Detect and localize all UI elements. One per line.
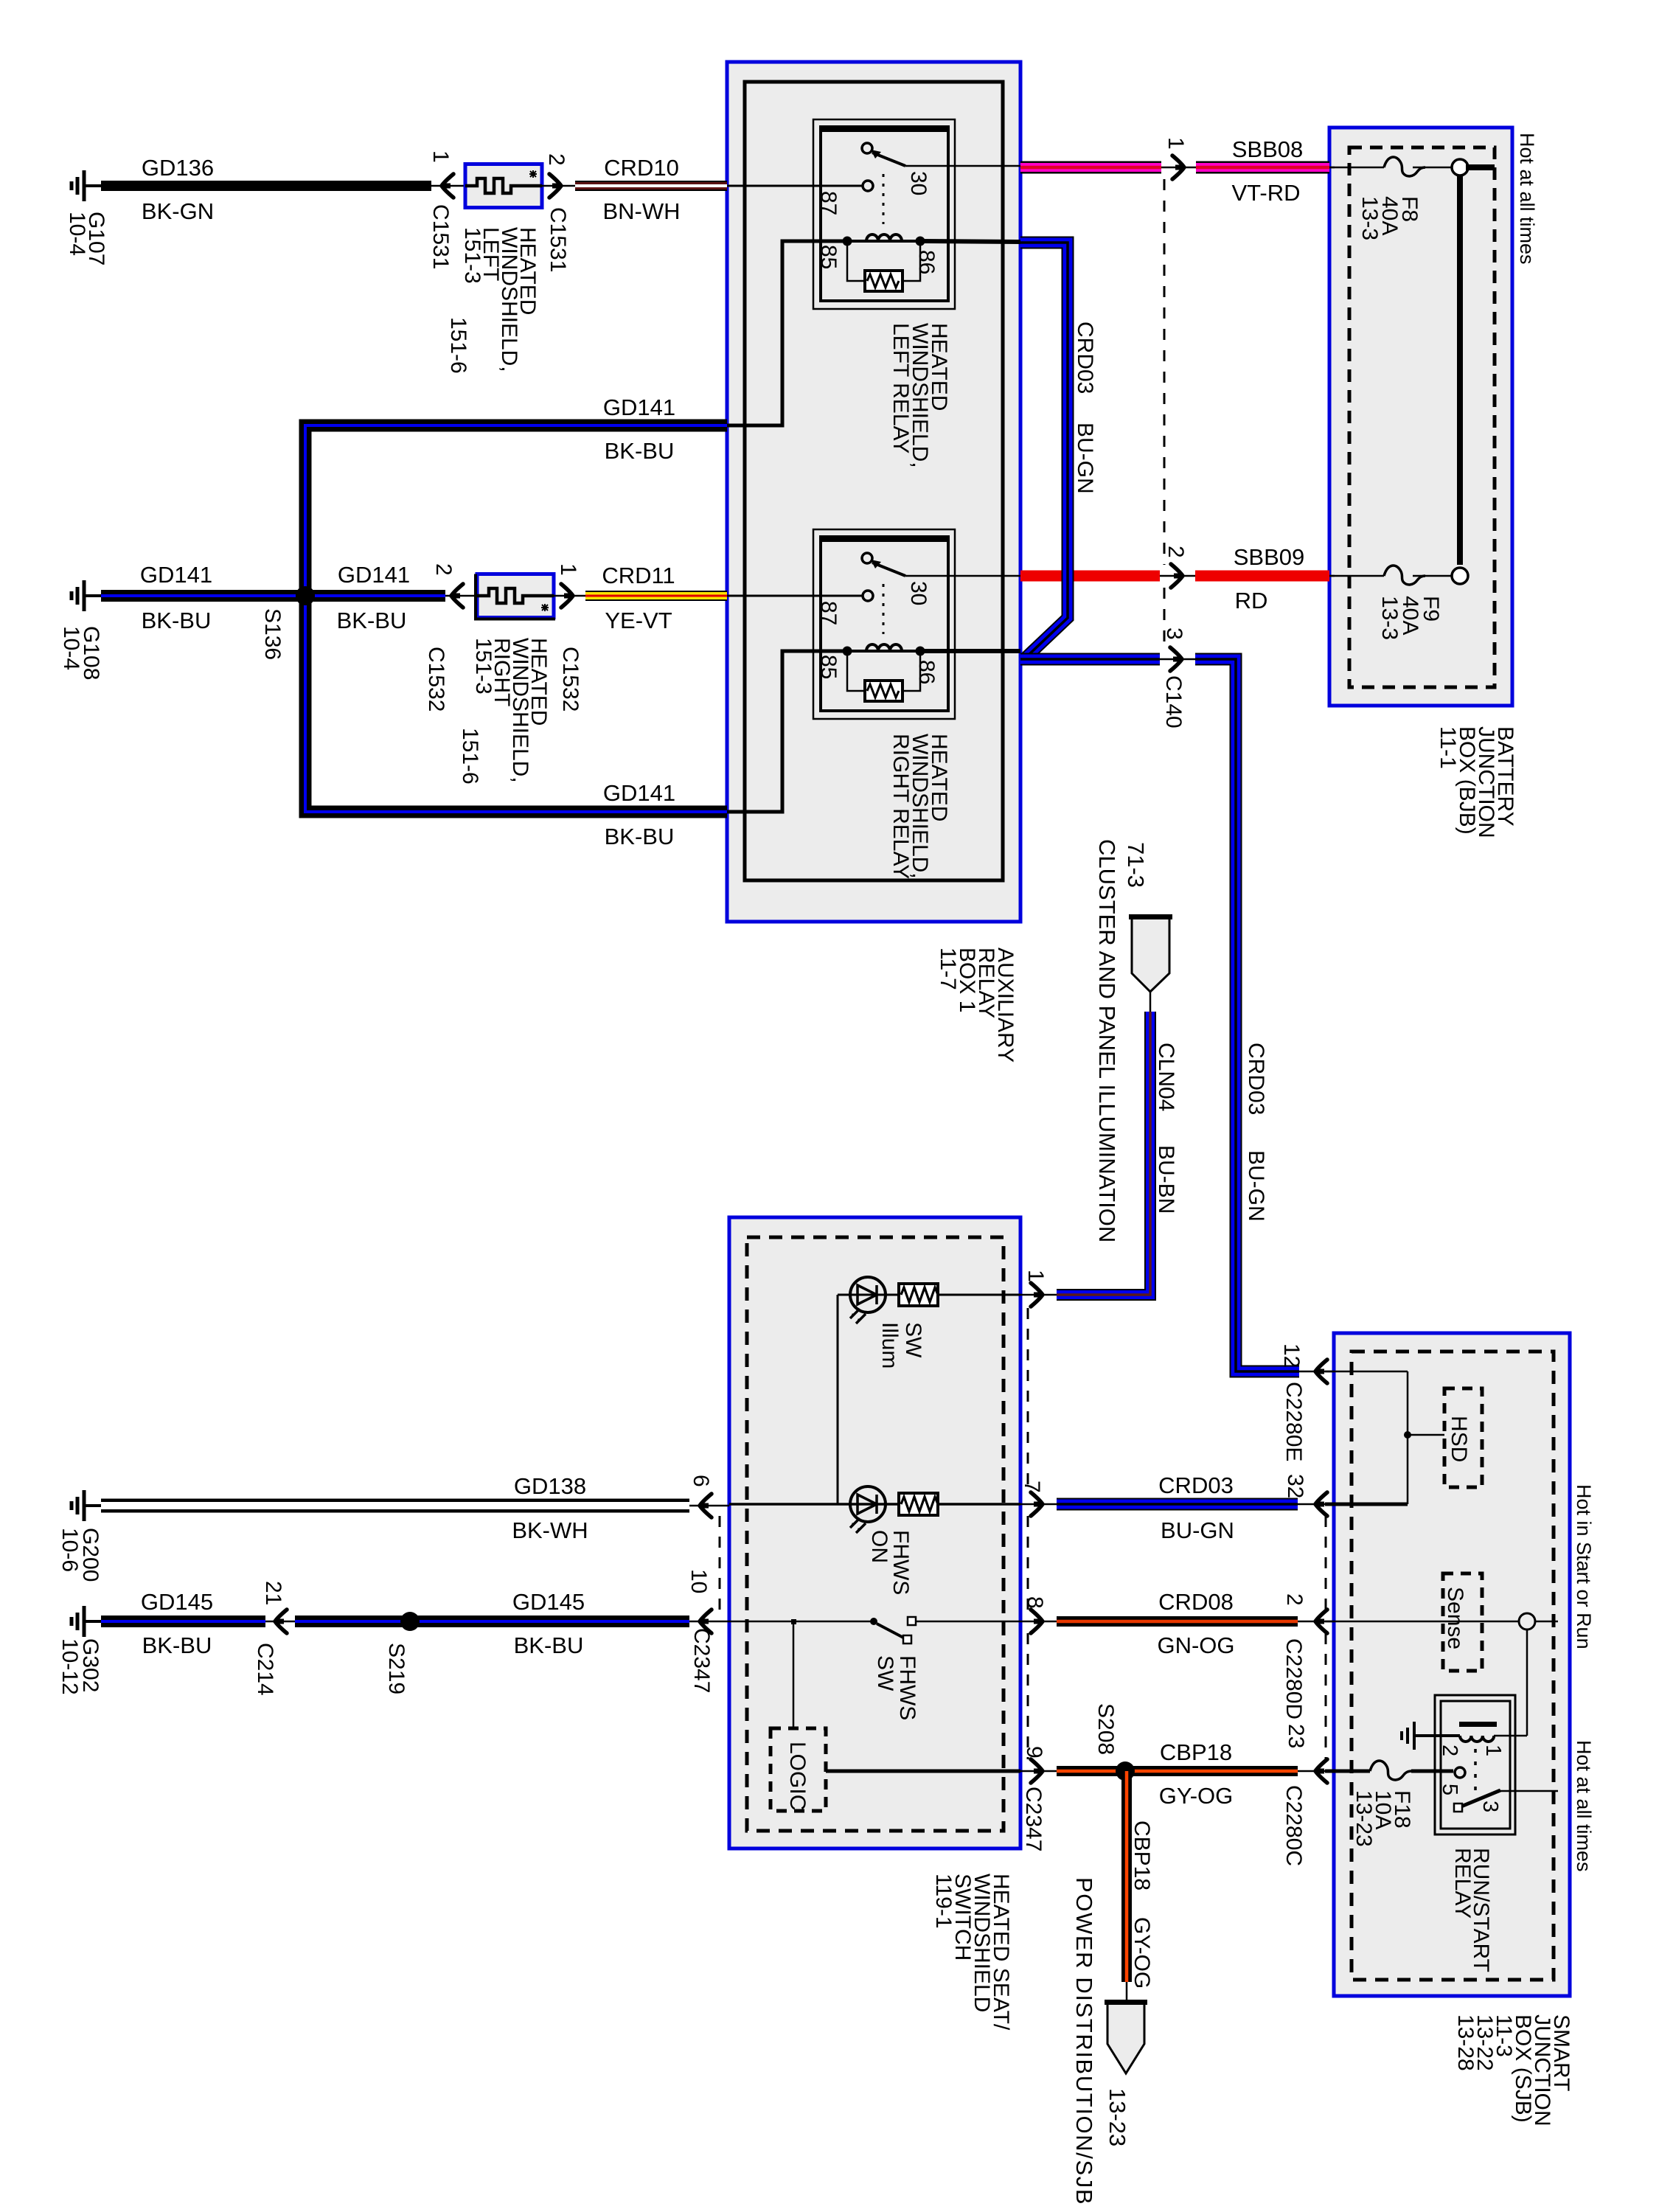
wire GD145 BK-BU (right) — [295, 1615, 689, 1627]
wire CRD03 BU-GN (C140 down to SJB) — [1195, 659, 1299, 1371]
svg-text:151-6: 151-6 — [458, 728, 482, 785]
svg-text:BK-BU: BK-BU — [605, 438, 675, 464]
off-page connector: CLUSTER AND PANEL ILLUMINATION 71-3 — [1132, 917, 1169, 992]
SJB pin 12 wire to HSD node — [1325, 1371, 1408, 1373]
svg-text:GD141: GD141 — [603, 394, 675, 420]
svg-text:2: 2 — [431, 563, 456, 576]
svg-text:GD145: GD145 — [512, 1589, 585, 1615]
svg-text:71-3: 71-3 — [1123, 842, 1149, 888]
svg-text:GD138: GD138 — [514, 1473, 586, 1499]
svg-text:2: 2 — [1164, 546, 1188, 558]
svg-text:BN-WH: BN-WH — [602, 198, 680, 224]
svg-text:CRD11: CRD11 — [602, 563, 675, 588]
RUN/START RELAY — [1435, 1695, 1515, 1834]
harness dashed lines at switch box — [1027, 1308, 1029, 1492]
wire CLN04 BU-BN — [1057, 1012, 1150, 1295]
wire CRD03 BU-GN (to C140) — [1020, 653, 1160, 666]
relay K1: HEATED WINDSHIELD, LEFT RELAY — [813, 119, 955, 309]
svg-text:S208: S208 — [1093, 1703, 1118, 1755]
svg-text:GN-OG: GN-OG — [1157, 1632, 1234, 1658]
switch box pin 1 arrow — [1031, 1283, 1043, 1307]
switch box pin 6 arrow — [689, 1505, 729, 1507]
svg-text:C214: C214 — [253, 1643, 277, 1696]
svg-text:C140: C140 — [1161, 675, 1186, 728]
svg-text:BU-GN: BU-GN — [1244, 1150, 1268, 1222]
svg-text:Sense: Sense — [1443, 1587, 1467, 1649]
Sense box — [1443, 1573, 1482, 1671]
svg-text:G30210-12: G30210-12 — [58, 1638, 102, 1695]
wire SBB08 VT-RD — [1020, 161, 1161, 174]
LOGIC box — [793, 1621, 795, 1728]
connector arrow 2 (SBB09) — [1171, 564, 1183, 588]
connector C1531 pin 2 arrow — [542, 185, 575, 187]
relay ground — [1402, 1722, 1414, 1750]
svg-text:7: 7 — [1020, 1481, 1044, 1493]
wire to relay2 pin 87 — [727, 595, 863, 597]
relay coil — [1460, 1736, 1494, 1742]
LED SW Illum — [838, 1294, 1020, 1296]
wire relay2 86 lead — [920, 649, 1020, 653]
svg-text:C1532: C1532 — [558, 647, 582, 712]
svg-text:2: 2 — [1282, 1593, 1307, 1606]
switch box pin 9 arrow — [1031, 1759, 1043, 1783]
harness dashed line at SJB — [1325, 1516, 1327, 1610]
svg-text:6: 6 — [689, 1475, 713, 1487]
fuse F9 40A — [1452, 568, 1468, 584]
SJB pin 23 arrow — [1298, 1770, 1335, 1773]
svg-text:2: 2 — [544, 153, 568, 166]
wire CRD11 YE-VT — [585, 591, 727, 601]
svg-text:30: 30 — [906, 581, 931, 605]
svg-text:YE-VT: YE-VT — [605, 608, 672, 633]
svg-text:CLN04: CLN04 — [1154, 1043, 1178, 1111]
svg-text:BK-BU: BK-BU — [142, 608, 212, 633]
switch box pin 7 arrow — [1031, 1492, 1043, 1516]
svg-text:GD145: GD145 — [141, 1589, 213, 1615]
svg-text:BU-BN: BU-BN — [1154, 1145, 1178, 1214]
svg-text:C1531: C1531 — [428, 204, 453, 269]
svg-text:C2280D: C2280D — [1281, 1638, 1306, 1719]
wire CBP18 GY-OG (down to SJB power dist) — [1121, 1771, 1132, 1982]
svg-text:86: 86 — [914, 660, 939, 684]
svg-text:CBP18: CBP18 — [1130, 1820, 1154, 1891]
connector C1532 pin 2 arrow — [445, 595, 477, 597]
svg-text:BK-BU: BK-BU — [142, 1632, 212, 1658]
svg-text:S219: S219 — [384, 1643, 408, 1694]
switch box pin 10 arrow — [689, 1621, 729, 1623]
SJB pin 12 arrow — [1299, 1371, 1335, 1373]
wire CRD10 BN-WH — [575, 181, 727, 191]
svg-text:RD: RD — [1235, 588, 1268, 613]
ground G107 — [72, 170, 102, 201]
node to HSD — [1404, 1431, 1411, 1439]
BJB bus bar — [1466, 164, 1495, 170]
box: AUXILIARY RELAY BOX 1 — [727, 62, 1020, 922]
svg-text:86: 86 — [914, 250, 939, 274]
wire to relay1 pin 87 — [727, 185, 863, 187]
svg-text:GD141: GD141 — [140, 562, 212, 588]
svg-text:GY-OG: GY-OG — [1130, 1917, 1154, 1989]
svg-text:10: 10 — [686, 1569, 711, 1593]
ground G302 — [72, 1606, 102, 1637]
svg-text:BK-BU: BK-BU — [337, 608, 407, 633]
svg-text:C2347: C2347 — [1021, 1787, 1046, 1851]
splice S136 — [296, 586, 315, 605]
wire CBP18 GY-OG (pin9 to pin23) — [1057, 1766, 1298, 1776]
svg-text:1: 1 — [1023, 1270, 1048, 1282]
svg-text:GY-OG: GY-OG — [1159, 1783, 1234, 1809]
svg-text:VT-RD: VT-RD — [1232, 180, 1301, 206]
ground G200 — [72, 1490, 102, 1521]
harness dashed line (SBB08/SBB09/C140) — [1164, 179, 1166, 565]
svg-text:85: 85 — [816, 245, 841, 269]
svg-text:GD141: GD141 — [338, 562, 410, 588]
svg-text:BU-GN: BU-GN — [1073, 422, 1097, 494]
svg-text:2: 2 — [1438, 1745, 1461, 1756]
svg-text:HSD: HSD — [1447, 1416, 1471, 1462]
wire relay1 86 lead — [920, 241, 1020, 242]
resistor (SW illum) — [899, 1284, 938, 1306]
svg-text:Hot at all times: Hot at all times — [1516, 133, 1538, 265]
svg-text:1: 1 — [1164, 137, 1188, 150]
switch box pin 8 arrow — [1031, 1610, 1043, 1633]
off-page connector: POWER DISTRIBUTION/SJB 13-23 — [1107, 2003, 1144, 2073]
svg-text:C1531: C1531 — [546, 207, 570, 272]
sense wire — [1325, 1621, 1519, 1623]
svg-text:BK-WH: BK-WH — [512, 1517, 588, 1543]
SJB pin 2 arrow — [1298, 1621, 1335, 1623]
svg-text:C2347: C2347 — [689, 1628, 714, 1693]
inner frame of auxiliary relay box — [745, 82, 1003, 880]
svg-text:85: 85 — [816, 655, 841, 679]
wire CRD03 BU-GN (pin7 to pin32) — [1057, 1498, 1298, 1511]
ground G108 — [72, 580, 102, 611]
wire relay1 85 to GD141 top — [727, 241, 847, 425]
svg-text:CRD08: CRD08 — [1158, 1589, 1234, 1615]
svg-text:LOGIC: LOGIC — [785, 1742, 810, 1810]
svg-text:1: 1 — [556, 563, 580, 576]
svg-text:CRD03: CRD03 — [1158, 1472, 1234, 1498]
wire GD141 BK-BU (top run) — [305, 425, 727, 590]
LOGIC output wire — [826, 1770, 1020, 1773]
svg-text:Hot in Start or Run: Hot in Start or Run — [1573, 1484, 1595, 1649]
svg-text:5: 5 — [1438, 1784, 1461, 1795]
svg-text:1: 1 — [428, 150, 453, 163]
svg-text:GD136: GD136 — [142, 155, 214, 181]
wire relay1 pin30 lead — [955, 165, 1020, 167]
box: SMART JUNCTION BOX (SJB) — [1334, 1333, 1570, 1996]
LED FHWS ON — [729, 1503, 1020, 1506]
HSD box — [1444, 1388, 1482, 1487]
wire GD141 BK-BU (ground run) — [101, 590, 445, 602]
svg-text:CRD03: CRD03 — [1073, 321, 1097, 394]
fuse F8 40A — [1384, 157, 1425, 176]
svg-text:3: 3 — [1478, 1801, 1502, 1812]
svg-text:C2280C: C2280C — [1281, 1785, 1306, 1866]
vertical link wire — [837, 1295, 839, 1504]
connector arrow 1 (SBB08) — [1172, 156, 1184, 179]
svg-text:CLUSTER AND PANEL ILLUMINATION: CLUSTER AND PANEL ILLUMINATION — [1094, 839, 1120, 1242]
thermal fuse: HEATED WINDSHIELD, LEFT — [465, 164, 542, 208]
svg-text:3: 3 — [1162, 627, 1186, 640]
svg-text:1: 1 — [1481, 1745, 1505, 1756]
svg-text:SBB09: SBB09 — [1234, 544, 1305, 570]
svg-text:C2280E: C2280E — [1281, 1382, 1306, 1461]
wire SBB09 RD — [1020, 571, 1160, 582]
svg-text:23: 23 — [1284, 1724, 1308, 1748]
svg-text:BK-BU: BK-BU — [605, 824, 675, 849]
svg-text:BU-GN: BU-GN — [1161, 1517, 1234, 1543]
svg-text:8: 8 — [1023, 1596, 1047, 1609]
svg-text:POWER DISTRIBUTION/SJB: POWER DISTRIBUTION/SJB — [1071, 1877, 1097, 2205]
svg-text:9: 9 — [1022, 1746, 1046, 1759]
wire CRD08 GN-OG (pin8 to pin2) — [1057, 1616, 1298, 1627]
box: BATTERY JUNCTION BOX (BJB) — [1329, 128, 1512, 706]
svg-text:S136: S136 — [260, 608, 285, 660]
svg-text:21: 21 — [261, 1581, 285, 1605]
wire relay2 pin30 lead — [955, 575, 1020, 577]
svg-text:12: 12 — [1279, 1343, 1304, 1368]
svg-text:CBP18: CBP18 — [1160, 1739, 1232, 1765]
thermal fuse: HEATED WINDSHIELD, RIGHT — [476, 574, 555, 619]
relay K2: HEATED WINDSHIELD, RIGHT RELAY — [813, 529, 955, 719]
connector C1532 pin 1 arrow — [554, 595, 585, 597]
svg-text:CRD10: CRD10 — [604, 155, 679, 181]
svg-text:SBB08: SBB08 — [1232, 136, 1304, 162]
connector C214 pin 21 arrow — [265, 1621, 295, 1623]
svg-text:GD141: GD141 — [603, 780, 675, 806]
wire relay2 85 to GD141 bottom — [727, 651, 847, 812]
svg-text:Hot at all times: Hot at all times — [1573, 1740, 1595, 1872]
wire GD145 BK-BU (left) — [101, 1615, 265, 1627]
FHWS SW switch — [729, 1621, 874, 1623]
svg-text:87: 87 — [816, 601, 841, 625]
wire CRD03 BU-GN (relay1 to junction) — [1020, 243, 1068, 657]
SJB pin 32 arrow — [1298, 1503, 1335, 1506]
splice S219 — [400, 1612, 420, 1631]
wire GD138 BK-WH — [101, 1499, 689, 1513]
connector C1531 pin 1 arrow — [431, 185, 465, 187]
box: HEATED SEAT/WINDSHIELD SWITCH — [729, 1217, 1020, 1848]
fuse F18 10A — [1325, 1770, 1370, 1773]
splice S208 — [1116, 1761, 1135, 1781]
svg-text:CRD03: CRD03 — [1244, 1043, 1268, 1115]
svg-text:BK-GN: BK-GN — [142, 198, 214, 224]
connector C140 pin 3 arrow — [1160, 658, 1195, 661]
svg-text:C1532: C1532 — [424, 647, 448, 712]
svg-text:BK-BU: BK-BU — [514, 1632, 584, 1658]
svg-text:13-23: 13-23 — [1105, 2088, 1130, 2146]
svg-text:151-6: 151-6 — [446, 317, 470, 374]
svg-text:30: 30 — [906, 171, 931, 195]
svg-text:32: 32 — [1283, 1474, 1307, 1498]
resistor (FHWS ON) — [899, 1493, 938, 1515]
wire GD136 BK-GN — [101, 181, 431, 191]
svg-text:87: 87 — [816, 191, 841, 215]
